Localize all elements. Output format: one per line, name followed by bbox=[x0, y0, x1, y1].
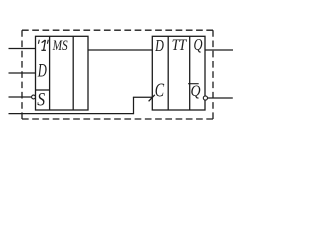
svg-text:D: D bbox=[37, 61, 47, 81]
svg-text:MS: MS bbox=[52, 38, 68, 53]
wire: constant-1 input bbox=[9, 48, 36, 50]
label '1' constant: left quote tick bbox=[37, 40, 40, 44]
svg-text:S: S bbox=[37, 89, 45, 109]
dashed IC package boundary, bottom side bbox=[22, 118, 213, 120]
svg-text:Q: Q bbox=[194, 36, 203, 54]
dashed IC package boundary, left side bbox=[21, 30, 23, 119]
dashed IC package boundary, top side bbox=[22, 29, 213, 31]
label '1' constant: digit 1 strokes bbox=[41, 40, 46, 50]
U1 S-cell separator bbox=[36, 89, 50, 91]
U2 internal divider 2 bbox=[189, 36, 191, 110]
svg-text:C: C bbox=[155, 79, 165, 101]
inversion bubble at S input bbox=[32, 95, 36, 99]
dashed IC package boundary, right side bbox=[212, 30, 214, 119]
svg-text:D: D bbox=[154, 37, 164, 56]
wire: C net riser bbox=[133, 97, 135, 114]
Q-bar overline bbox=[188, 83, 199, 85]
flip-flop block U2 outline bbox=[152, 36, 205, 110]
wire: D input bbox=[9, 72, 36, 74]
U1 internal divider 1 bbox=[49, 36, 51, 110]
wire: S input bbox=[9, 96, 32, 98]
label '1' constant: right quote tick bbox=[46, 40, 49, 44]
svg-text:Q: Q bbox=[191, 83, 201, 100]
wire: C net bottom run bbox=[9, 113, 134, 115]
inversion bubble at Q-bar output bbox=[203, 96, 207, 100]
wire: Q output bbox=[205, 49, 233, 51]
U2 internal divider 1 bbox=[167, 36, 169, 110]
master latch block U1 outline bbox=[36, 36, 89, 110]
wire: C net into U2 bbox=[133, 96, 152, 98]
U1 internal divider 2 bbox=[72, 36, 74, 110]
dynamic-input slash at C pin bbox=[149, 95, 155, 102]
wire: Q-bar output bbox=[208, 97, 233, 99]
wire: U1 output to U2 D input bbox=[88, 49, 152, 51]
